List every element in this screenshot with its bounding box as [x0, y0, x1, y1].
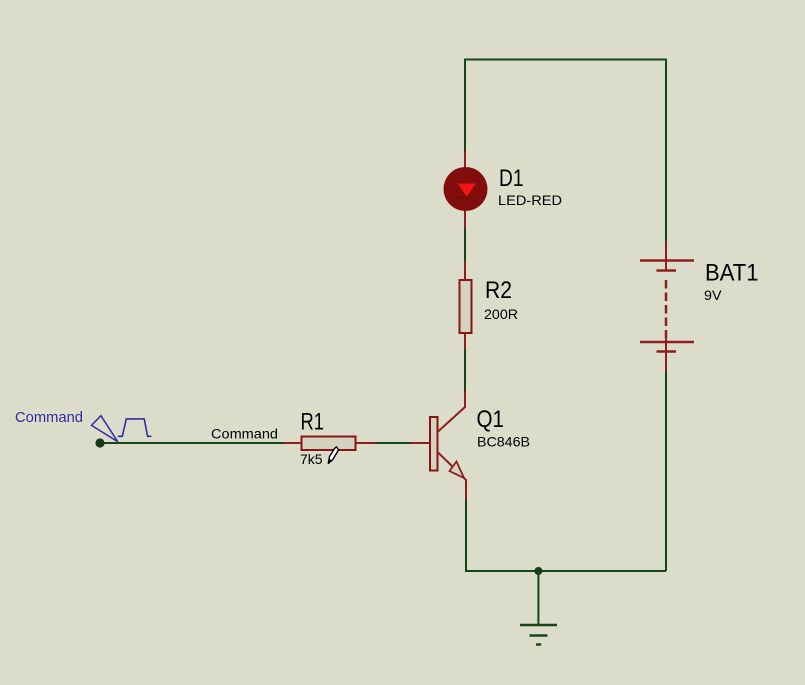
- svg-text:R1: R1: [301, 409, 325, 436]
- wire: emitter net down to ground rail: [465, 498, 467, 570]
- resistor R1 pin left (red): [284, 442, 301, 444]
- LED D1 bright triangle: [458, 184, 477, 197]
- battery BAT1 pin bottom (red): [665, 352, 667, 372]
- svg-text:D1: D1: [499, 165, 524, 192]
- LED D1 body: [444, 167, 488, 211]
- transistor Q1 base pin (red): [411, 442, 429, 444]
- wire top rail: collector rail top, top horizontal, right rail down to battery: [465, 60, 666, 243]
- battery BAT1 top cell long plate: [640, 259, 694, 262]
- battery BAT1 dashed link: [665, 280, 668, 338]
- resistor R1 body: [302, 437, 356, 451]
- transistor Q1 base bar: [430, 417, 438, 471]
- svg-text:9V: 9V: [704, 287, 722, 303]
- LED D1 cathode bar (darker): [457, 197, 476, 200]
- transistor Q1 emitter line (red): [438, 453, 454, 468]
- node input junction dot: [95, 438, 104, 447]
- svg-text:7k5: 7k5: [300, 451, 323, 467]
- node ground junction dot: [534, 567, 542, 575]
- battery BAT1 bottom cell connector (red): [665, 333, 667, 352]
- generator Command probe triangle (blue): [92, 416, 118, 442]
- ground symbol bar 1: [520, 624, 557, 627]
- LED D1 pin bottom (red): [464, 210, 466, 228]
- svg-text:Command: Command: [211, 427, 278, 442]
- wire: base net from input node to R1: [100, 442, 284, 444]
- cursor pencil icon: [328, 447, 338, 464]
- ground symbol stem: [537, 571, 539, 625]
- svg-text:R2: R2: [485, 277, 512, 304]
- transistor Q1 emitter arrowhead: [450, 462, 465, 479]
- svg-text:LED-RED: LED-RED: [498, 193, 562, 208]
- battery BAT1 bottom cell short plate: [657, 350, 677, 353]
- generator Command pulse waveform (blue): [118, 419, 152, 436]
- svg-text:BC846B: BC846B: [477, 434, 530, 450]
- svg-text:BAT1: BAT1: [705, 260, 759, 287]
- LED D1 pin top (red): [464, 151, 466, 168]
- resistor R2 pin top (red): [464, 261, 466, 280]
- svg-text:200R: 200R: [484, 306, 518, 322]
- transistor Q1 emitter pin to vertical (red): [464, 478, 466, 499]
- wire: green segment between LED and R2: [464, 227, 466, 263]
- svg-text:Q1: Q1: [477, 406, 505, 433]
- ground symbol bar 3: [536, 643, 541, 646]
- wire: right rail from battery bottom down to ground rail: [665, 370, 667, 571]
- wire: bottom ground rail horizontal: [465, 570, 666, 572]
- svg-text:Command: Command: [15, 409, 83, 426]
- transistor Q1 collector pin (red): [438, 391, 465, 432]
- ground symbol bar 2: [530, 634, 548, 637]
- resistor R2 body: [460, 280, 472, 333]
- battery BAT1 pin top (red): [665, 241, 667, 270]
- battery BAT1 bottom cell long plate: [640, 341, 694, 344]
- resistor R1 pin right (red): [356, 442, 375, 444]
- wire: green segment between R2 and Q1 collector pin: [464, 349, 466, 392]
- battery BAT1 top cell short plate: [657, 269, 677, 272]
- resistor R2 pin bottom (red): [464, 333, 466, 350]
- wire: green segment between R1 and Q1 base pin: [374, 442, 411, 444]
